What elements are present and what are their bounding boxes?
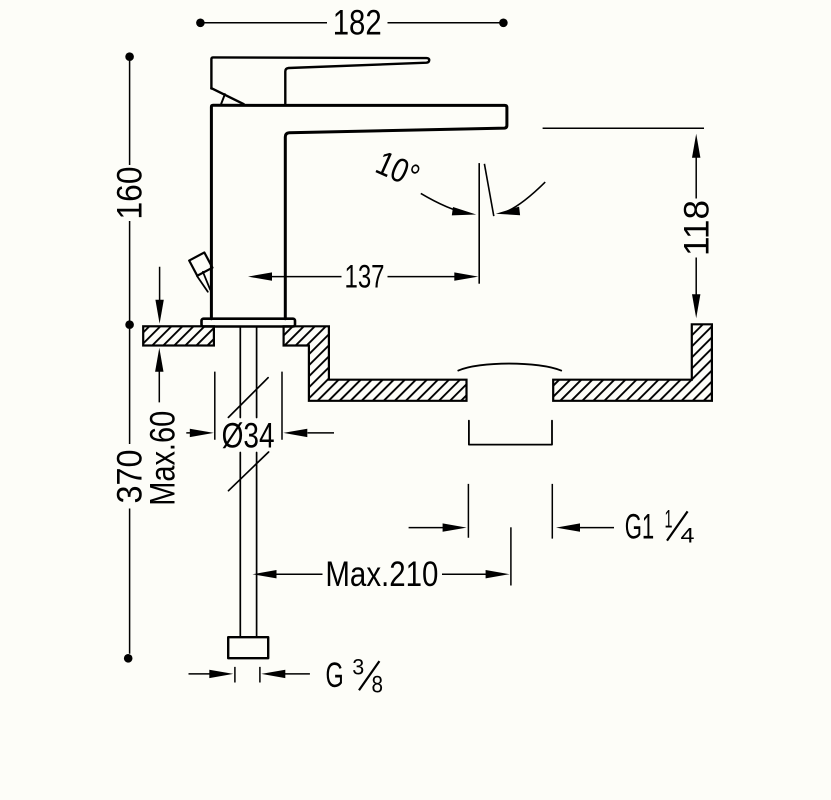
- svg-text:Max.210: Max.210: [325, 555, 438, 594]
- svg-text:Ø34: Ø34: [222, 415, 275, 455]
- svg-text:3: 3: [352, 655, 364, 680]
- svg-text:Max.60: Max.60: [144, 411, 183, 506]
- svg-text:137: 137: [345, 258, 385, 294]
- svg-text:182: 182: [333, 2, 382, 42]
- svg-text:4: 4: [681, 523, 695, 547]
- svg-text:8: 8: [372, 672, 384, 699]
- svg-text:G1: G1: [625, 507, 655, 547]
- svg-text:160: 160: [110, 167, 150, 220]
- svg-text:118: 118: [677, 200, 717, 256]
- svg-text:G: G: [326, 655, 344, 695]
- svg-text:1: 1: [665, 506, 673, 534]
